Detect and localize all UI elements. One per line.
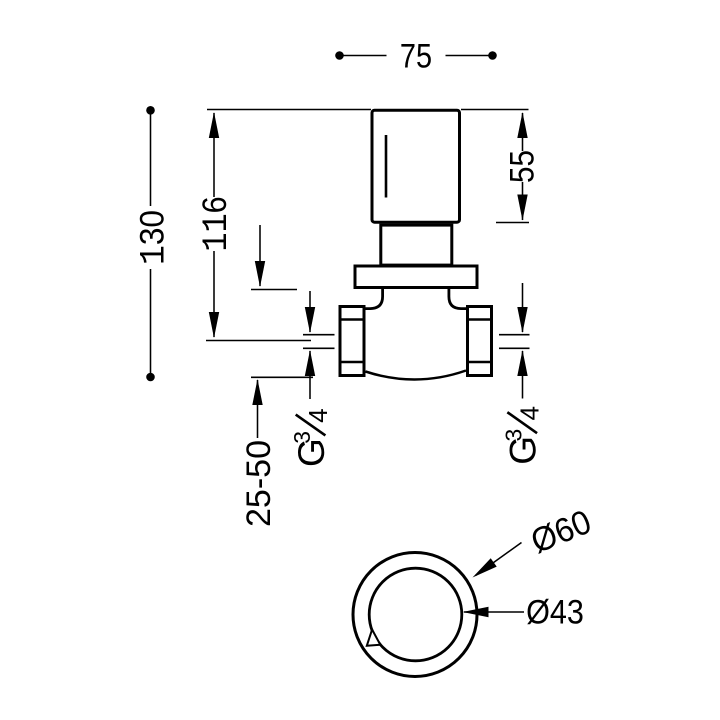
svg-text:116: 116 (196, 196, 238, 251)
svg-text:Ø43: Ø43 (526, 593, 584, 631)
svg-text:3: 3 (289, 431, 315, 444)
svg-text:3: 3 (500, 429, 526, 442)
svg-text:4: 4 (303, 408, 333, 422)
svg-text:75: 75 (400, 36, 432, 75)
svg-text:55: 55 (503, 150, 541, 183)
svg-text:25-50: 25-50 (240, 440, 278, 527)
svg-text:4: 4 (514, 406, 544, 420)
svg-text:130: 130 (132, 210, 174, 265)
